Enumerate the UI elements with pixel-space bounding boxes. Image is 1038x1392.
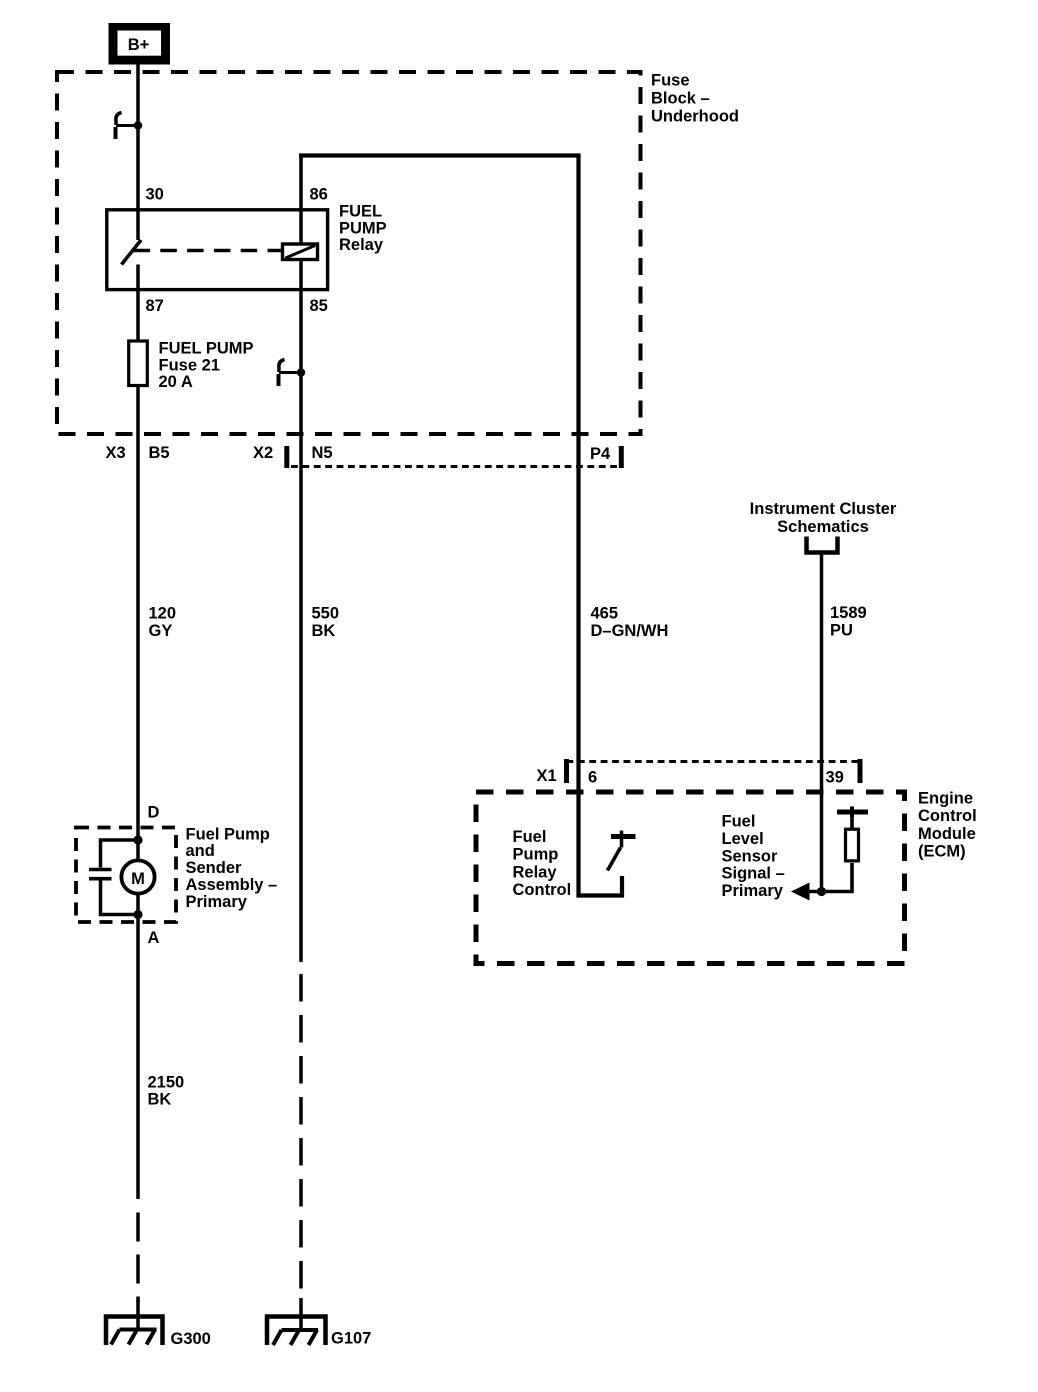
ECM pull-up voltage T-bar xyxy=(837,807,868,818)
svg-text:120GY: 120GY xyxy=(149,605,177,641)
ground G300 xyxy=(106,1317,163,1346)
instrument cluster off-page bracket xyxy=(807,537,838,553)
svg-text:FuelLevelSensorSignal –Primary: FuelLevelSensorSignal –Primary xyxy=(722,813,785,901)
wire 550 BK solid segment xyxy=(299,260,303,963)
svg-text:87: 87 xyxy=(146,297,164,315)
ECM pull-up resistor lead top xyxy=(850,815,854,830)
svg-text:FUEL PUMPFuse 2120 A: FUEL PUMPFuse 2120 A xyxy=(159,340,254,392)
connector X2 boundary left end stub xyxy=(284,446,289,468)
wire relay pin 87 through fuse to pump pin D xyxy=(136,265,140,860)
svg-text:A: A xyxy=(148,929,160,947)
svg-text:B+: B+ xyxy=(128,36,150,54)
relay switch arm pin 30 to 87 xyxy=(122,240,142,265)
svg-text:G300: G300 xyxy=(171,1330,211,1348)
svg-text:30: 30 xyxy=(146,186,164,204)
wire into ground G300 xyxy=(136,1300,140,1330)
wire into ground G107 xyxy=(299,1298,303,1331)
svg-text:39: 39 xyxy=(826,769,844,787)
svg-text:Instrument ClusterSchematics: Instrument ClusterSchematics xyxy=(750,500,897,536)
capacitor C1 plates xyxy=(89,870,112,879)
wire B+ to relay pin 30 xyxy=(136,64,140,240)
svg-text:550BK: 550BK xyxy=(312,605,340,641)
capacitor branch wires xyxy=(101,840,139,915)
ECM driver switch T-bar xyxy=(611,831,636,848)
wire 1589 PU from instrument cluster to ECM xyxy=(820,552,824,892)
svg-text:FUELPUMPRelay: FUELPUMPRelay xyxy=(339,203,387,255)
svg-text:85: 85 xyxy=(310,297,328,315)
relay coil xyxy=(283,244,318,260)
ECM dashed box xyxy=(476,792,905,964)
wire 2150 BK dashed continuation xyxy=(136,1213,140,1303)
junction node pump top xyxy=(133,835,142,844)
svg-text:P4: P4 xyxy=(590,445,611,463)
svg-text:D: D xyxy=(148,804,160,822)
svg-text:X1: X1 xyxy=(537,767,557,785)
svg-text:M: M xyxy=(131,870,145,888)
fuse 21 xyxy=(129,341,148,386)
svg-text:Fuel PumpandSenderAssembly –Pr: Fuel PumpandSenderAssembly –Primary xyxy=(186,825,278,911)
junction node pump bottom xyxy=(133,910,142,919)
connector X1 boundary dashed line xyxy=(567,760,861,763)
svg-text:X2: X2 xyxy=(253,444,273,462)
ECM driver switch arm xyxy=(608,848,621,871)
wire relay pin 86 coil to pin 85 down to N5 xyxy=(299,155,303,244)
connector X2 boundary right end stub xyxy=(619,446,624,468)
fuse block underhood dashed box xyxy=(57,72,641,434)
svg-text:B5: B5 xyxy=(149,444,170,462)
wire 550 BK dashed continuation xyxy=(299,974,303,1300)
battery feed clip symbol on B+ wire xyxy=(116,113,143,140)
relay actuator dashed link xyxy=(134,249,283,253)
svg-text:FuelPumpRelayControl: FuelPumpRelayControl xyxy=(513,828,572,899)
B+ terminal xyxy=(109,23,171,65)
svg-text:1589PU: 1589PU xyxy=(830,604,867,640)
ECM pull-up resistor xyxy=(846,829,859,861)
svg-text:G107: G107 xyxy=(331,1330,371,1348)
svg-text:6: 6 xyxy=(588,769,597,787)
connector X1 boundary left end stub xyxy=(564,759,569,783)
svg-text:2150BK: 2150BK xyxy=(148,1074,185,1109)
fuel pump and sender assembly dashed box xyxy=(76,828,176,923)
wire relay coil control path 465 D-GN/WH to ECM switch xyxy=(299,156,622,896)
fuel level signal arrowhead xyxy=(791,883,810,901)
svg-text:465D–GN/WH: 465D–GN/WH xyxy=(591,605,669,641)
svg-text:EngineControlModule(ECM): EngineControlModule(ECM) xyxy=(918,790,977,861)
fuel pump motor M1 xyxy=(121,860,154,893)
junction node fuel level signal xyxy=(817,887,826,896)
connector X1 boundary right end stub xyxy=(858,759,863,783)
ECM pull-up resistor lead bottom xyxy=(806,863,852,892)
svg-text:N5: N5 xyxy=(312,444,333,462)
svg-text:FuseBlock –Underhood: FuseBlock –Underhood xyxy=(651,72,739,126)
wire pump pin A down xyxy=(136,895,140,1199)
fuel pump relay box xyxy=(107,210,328,290)
clip symbol on 550 BK wire xyxy=(279,360,306,387)
connector X2 boundary dashed line xyxy=(291,465,621,468)
svg-text:86: 86 xyxy=(310,186,328,204)
svg-text:X3: X3 xyxy=(106,444,126,462)
ground G107 xyxy=(267,1317,326,1346)
